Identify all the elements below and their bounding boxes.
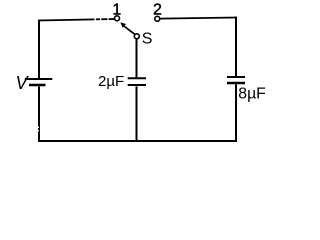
wire middle vertical below capacitor [136,86,138,142]
svg-text:2µF: 2µF [98,73,124,90]
wire top-left horizontal [38,19,115,21]
battery V bottom plate [29,84,46,87]
svg-text:1: 1 [112,1,121,18]
capacitor C1 2uF top plate [128,77,146,79]
capacitor C1 2uF bottom plate [128,84,146,86]
wire right vertical below capacitor [235,84,237,142]
wire bottom horizontal [38,140,237,142]
wire left vertical [38,20,40,78]
svg-text:8µF: 8µF [238,85,266,102]
switch pivot node S [134,34,139,39]
wire left vertical below battery [38,86,40,142]
svg-text:S: S [142,30,153,47]
svg-text:V: V [16,73,30,93]
switch contact node 2 [155,16,160,21]
wire right vertical [235,17,237,77]
wire middle vertical below switch [136,39,138,77]
svg-text:2: 2 [153,1,162,18]
capacitor C2 8uF top plate [227,76,245,78]
switch contact node 1 [115,16,120,21]
wire top-right horizontal [160,18,237,19]
capacitor C2 8uF bottom plate [227,82,245,85]
switch S arm arrow [120,22,135,34]
battery V top plate [25,78,53,80]
